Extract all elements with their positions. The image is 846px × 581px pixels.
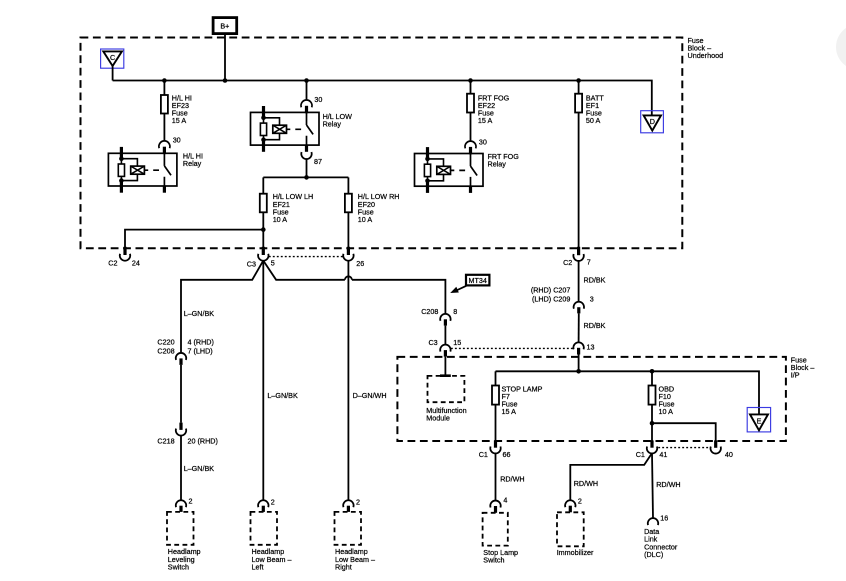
fuse OBD F10 10A [649,386,656,405]
connector pin 87 below H/L LOW relay [301,152,311,159]
svg-text:(RHD) C207: (RHD) C207 [531,286,571,295]
svg-text:H/L LOW RHEF20Fuse10 A: H/L LOW RHEF20Fuse10 A [358,192,400,224]
junction rail at OBD [650,369,655,374]
wire C3-5 to headlamp low beam left [262,261,264,500]
svg-text:7 (LHD): 7 (LHD) [188,346,213,355]
wire C3-5 branch to headlamp leveling switch [181,261,263,353]
connector pin 16 DLC [648,513,669,525]
wire C3-5 branch to MT34 corner with hop over 26 wire [263,261,445,314]
svg-text:C208: C208 [157,346,174,355]
fuse STOP LAMP F7 15A [492,386,499,405]
svg-text:87: 87 [314,157,322,166]
svg-text:FuseBlock –Underhood: FuseBlock –Underhood [688,36,724,60]
connector C2 pin 24 [108,247,140,268]
stop lamp switch box [483,513,508,546]
svg-text:26: 26 [356,259,364,268]
headlamp leveling switch box [167,512,194,545]
svg-text:RD/WH: RD/WH [656,480,680,489]
connector (RHD) C207 (LHD) C209 pin 3 [531,286,594,314]
svg-text:5: 5 [271,259,275,268]
fuse BATT EF1 50A [575,94,582,113]
svg-text:L–GN/BK: L–GN/BK [184,309,215,318]
svg-text:41: 41 [659,450,667,459]
svg-text:C208: C208 [421,307,438,316]
svg-text:MT34: MT34 [469,276,487,285]
svg-text:66: 66 [503,450,511,459]
wire bus to fuse EF1 [578,81,580,94]
svg-text:2: 2 [189,496,193,505]
svg-text:HeadlampLow Beam –Left: HeadlampLow Beam –Left [252,547,292,571]
connector C3 pin 5 [247,247,275,268]
svg-text:HeadlampLevelingSwitch: HeadlampLevelingSwitch [168,547,201,571]
svg-text:8: 8 [453,307,457,316]
headlamp low beam left box [251,512,278,545]
connector C1 pin 66 [479,440,511,459]
svg-text:13: 13 [587,343,595,352]
wire main bus [113,81,652,116]
connector pin 26 [343,247,364,268]
wire bus to fuse EF23 [163,81,165,96]
wire bus to fuse EF22 [470,81,472,94]
headlamp low beam right box [335,512,362,545]
svg-text:RD/BK: RD/BK [584,321,606,330]
fuse H/L LOW LH EF21 10A [260,194,267,213]
svg-text:40: 40 [725,450,733,459]
battery feed B+ [213,18,237,34]
connector C2 pin 7 [563,247,591,267]
svg-text:B+: B+ [220,22,229,31]
svg-text:FRT FOGRelay: FRT FOGRelay [488,152,520,169]
svg-text:2: 2 [271,497,275,506]
wire I/P rail [496,371,760,414]
svg-text:C3: C3 [247,259,256,268]
connector C218 pin 20 [157,423,217,446]
svg-text:C220: C220 [157,338,174,347]
wire EF22 to relay pin 30 [470,113,472,142]
svg-text:2: 2 [356,497,360,506]
svg-text:BATTEF1Fuse50 A: BATTEF1Fuse50 A [586,93,604,125]
junction on bus at EF23 [162,78,167,83]
svg-text:DataLinkConnector(DLC): DataLinkConnector(DLC) [644,527,678,559]
junction EF21 wire / C2-24 branch [261,227,266,232]
svg-text:C2: C2 [108,258,117,267]
svg-text:30: 30 [173,135,181,144]
wire EF23 to relay pin 30 [163,114,165,141]
wire branch to pin 40 [652,423,716,441]
junction on bus at B+ [223,78,228,83]
junction F10 output [650,421,655,426]
svg-text:L–GN/BK: L–GN/BK [267,391,298,400]
dotted connector link 41 to 40 [658,447,710,449]
connector pin 40 [711,440,733,459]
wire rail to fuse F10 [651,371,653,385]
junction on bus at EF1 [576,78,581,83]
svg-text:D–GN/WH: D–GN/WH [353,391,387,400]
relay H/L LOW [251,100,320,152]
wire F7 to C1 pin 66 [495,405,497,441]
wire header to fuse EF20 [347,177,349,193]
relay FRT FOG [415,141,484,193]
svg-text:24: 24 [132,259,140,268]
wire C1-41 to data link connector [652,453,653,518]
svg-text:MultifunctionModule: MultifunctionModule [426,406,466,423]
fuse FRT FOG EF22 15A [467,94,474,113]
connector pin 2 headlamp leveling switch [176,496,193,512]
wire bus to H/L LOW relay pin 30 [306,81,308,100]
wire C208-8 to C3-15 [444,326,446,345]
svg-text:7: 7 [587,258,591,267]
wire relay 87 to fuse header [306,159,308,178]
wire hop over 26 wire [345,276,352,280]
svg-text:RD/WH: RD/WH [574,479,598,488]
dotted connector link C3-5 to 26 [269,256,343,258]
wire pin 3 to pin 13 [578,313,580,342]
connector pin 2 immobilizer [565,496,582,512]
svg-text:H/L LOWRelay: H/L LOWRelay [323,112,353,129]
svg-text:H/L LOW LHEF21Fuse10 A: H/L LOW LHEF21Fuse10 A [273,192,313,224]
svg-text:30: 30 [479,137,487,146]
svg-text:15: 15 [453,338,461,347]
ground symbol E [747,408,770,432]
connector C220/C208 pin 4/7 [157,338,213,365]
svg-text:C1: C1 [636,450,645,459]
wire rail to fuse F7 [495,371,497,385]
svg-text:E: E [757,417,762,426]
svg-text:FuseBlock –I/P: FuseBlock –I/P [791,355,815,379]
wire header to fuse EF21 [262,177,264,193]
svg-text:C1: C1 [479,450,488,459]
callout MT34 [450,275,489,293]
wire C220 to C218 [180,365,182,423]
svg-text:C218: C218 [157,437,174,446]
connector pin 2 headlamp low beam left [258,497,275,512]
svg-text:FRT FOGEF22Fuse15 A: FRT FOGEF22Fuse15 A [478,93,510,125]
wire B+ to bus [224,34,226,81]
power symbol D [641,111,664,133]
relay H/L HI [108,141,176,193]
wire EF21 to C3 pin 5 [262,212,264,247]
multifunction module box [428,376,465,402]
wire C218 to headlamp leveling switch [180,435,182,500]
svg-text:RD/BK: RD/BK [584,276,606,285]
fuse H/L HI EF23 15A [161,95,168,114]
svg-text:C2: C2 [563,258,572,267]
junction 87 header [304,175,309,180]
svg-text:HeadlampLow Beam –Right: HeadlampLow Beam –Right [335,547,375,571]
svg-text:C3: C3 [428,338,437,347]
connector C208 pin 8 [421,307,457,326]
fuse block underhood border [81,38,683,249]
connector pin 13 [573,342,594,354]
wire EF1 to C2 pin 7 [578,113,580,248]
decorative gray blob (kept unlabeled content minimal) [836,24,846,70]
svg-text:C: C [110,53,115,62]
svg-text:L–GN/BK: L–GN/BK [184,464,215,473]
wire C1-41 branch to immobilizer [570,453,652,500]
svg-text:H/L HIRelay: H/L HIRelay [183,151,203,168]
svg-text:STOP LAMPF7Fuse15 A: STOP LAMPF7Fuse15 A [502,384,543,416]
svg-text:(LHD) C209: (LHD) C209 [532,294,570,303]
svg-text:16: 16 [660,513,668,522]
wire C1-66 to stop lamp switch [495,453,497,500]
fuse block I/P border [397,357,786,441]
svg-text:30: 30 [314,95,322,104]
wire 26 to headlamp low beam right [347,261,349,500]
svg-text:H/L HIEF23Fuse15 A: H/L HIEF23Fuse15 A [172,93,192,125]
junction on bus at EF22 [468,78,473,83]
connector C3 pin 15 [428,338,461,357]
wire C3-15 to multifunction module [444,357,446,376]
svg-text:D: D [650,117,655,126]
svg-text:RD/WH: RD/WH [500,474,524,483]
wire C2-7 to pin 3 [578,261,580,302]
terminal bar at multifunction module [440,374,451,377]
junction rail at 13 [576,369,581,374]
connector pin 4 stop lamp switch [490,495,507,512]
svg-text:4 (RHD): 4 (RHD) [188,338,214,347]
power symbol C [101,49,124,68]
wire F10 down to junction [651,405,653,424]
svg-text:4: 4 [503,495,507,504]
svg-text:Stop LampSwitch: Stop LampSwitch [483,548,518,565]
fuse H/L LOW RH EF20 10A [345,194,352,213]
dotted connector link C3-15 to 13 [451,347,573,349]
wire F10 junction to C1 pin 41 [651,423,653,441]
wire branch to C2 pin 24 [125,230,263,248]
immobilizer box [557,512,584,546]
svg-text:Immobilizer: Immobilizer [557,548,594,557]
wire header EF21-EF20 [263,176,348,178]
svg-text:OBDF10Fuse10 A: OBDF10Fuse10 A [659,384,675,416]
wire pin 13 into I/P rail [578,355,580,372]
connector pin 2 headlamp low beam right [343,497,360,512]
wire C to bus [112,66,114,81]
svg-text:2: 2 [578,496,582,505]
wire EF20 to pin 26 [347,212,349,247]
connector C1 pin 41 [636,440,668,459]
svg-text:3: 3 [590,294,594,303]
junction on bus at H/L LOW relay [304,78,309,83]
svg-text:20 (RHD): 20 (RHD) [188,437,218,446]
